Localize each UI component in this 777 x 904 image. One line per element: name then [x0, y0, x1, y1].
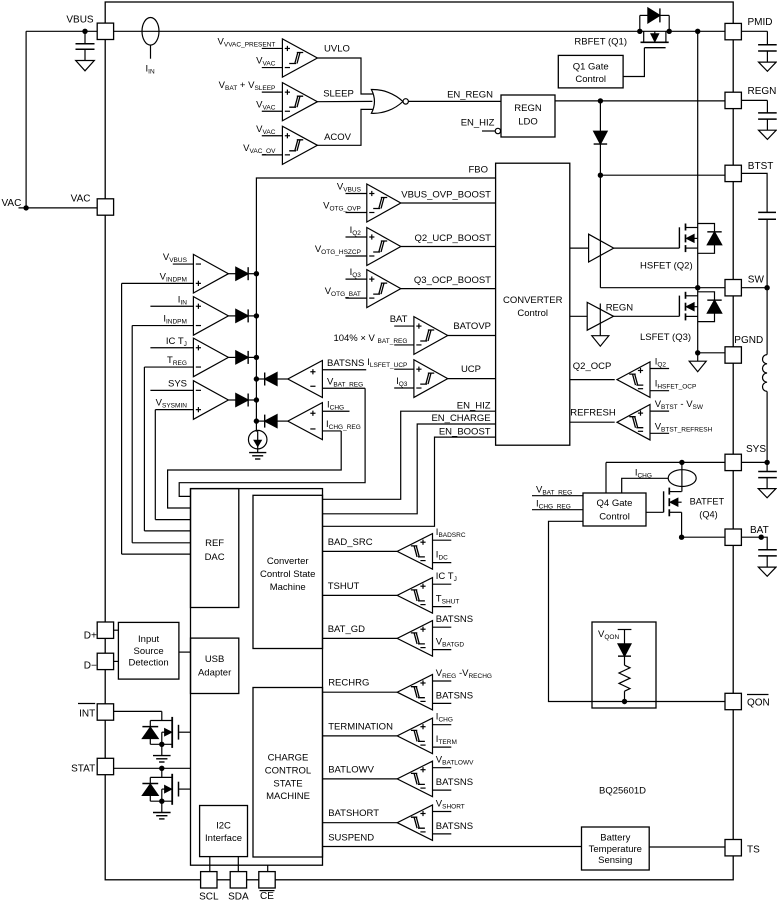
svg-text:EN_REGN: EN_REGN	[447, 90, 493, 101]
svg-text:Q3_OCP_BOOST: Q3_OCP_BOOST	[414, 275, 491, 286]
svg-text:LDO: LDO	[518, 117, 538, 128]
svg-text:Input: Input	[138, 634, 159, 645]
svg-text:BATFET: BATFET	[690, 497, 725, 507]
svg-text:Battery: Battery	[600, 833, 630, 844]
svg-text:I2C: I2C	[216, 821, 231, 832]
svg-text:BQ25601D: BQ25601D	[599, 786, 646, 797]
svg-text:BAT_GD: BAT_GD	[328, 624, 365, 635]
svg-text:EN_BOOST: EN_BOOST	[439, 426, 491, 437]
svg-text:Interface: Interface	[205, 833, 242, 844]
svg-text:Machine: Machine	[270, 582, 306, 593]
svg-text:BATSNS: BATSNS	[436, 690, 473, 701]
svg-text:BATSHORT: BATSHORT	[328, 808, 379, 819]
svg-text:Sensing: Sensing	[598, 855, 632, 866]
svg-text:UVLO: UVLO	[324, 44, 350, 55]
svg-text:BATLOWV: BATLOWV	[328, 764, 374, 775]
svg-text:RBFET (Q1): RBFET (Q1)	[574, 37, 627, 48]
svg-text:Source: Source	[134, 646, 164, 657]
svg-text:LSFET (Q3): LSFET (Q3)	[640, 332, 691, 343]
svg-text:Adapter: Adapter	[198, 668, 231, 679]
svg-text:REFRESH: REFRESH	[570, 408, 616, 419]
svg-text:Control: Control	[575, 74, 606, 85]
svg-text:D+: D+	[84, 631, 97, 642]
svg-text:BAD_SRC: BAD_SRC	[328, 537, 373, 548]
svg-text:CONTROL: CONTROL	[265, 765, 311, 776]
svg-text:BATSNS: BATSNS	[436, 614, 473, 625]
svg-text:BATSNS: BATSNS	[327, 358, 364, 369]
svg-text:BAT: BAT	[390, 314, 408, 325]
svg-text:REGN: REGN	[514, 103, 542, 114]
svg-text:SUSPEND: SUSPEND	[328, 833, 374, 844]
svg-text:INT: INT	[79, 709, 95, 720]
svg-text:(Q4): (Q4)	[699, 510, 717, 520]
svg-text:ACOV: ACOV	[324, 132, 352, 143]
svg-text:SYS: SYS	[168, 378, 187, 389]
svg-text:Converter: Converter	[267, 556, 309, 567]
svg-text:USB: USB	[205, 654, 225, 665]
svg-text:Control: Control	[517, 308, 548, 319]
svg-text:EN_HIZ: EN_HIZ	[457, 400, 491, 411]
svg-text:Detection: Detection	[129, 658, 169, 669]
svg-text:PMID: PMID	[748, 17, 773, 28]
svg-text:SLEEP: SLEEP	[323, 89, 354, 100]
svg-text:SW: SW	[748, 275, 765, 286]
svg-text:Q4 Gate: Q4 Gate	[597, 498, 633, 509]
svg-text:HSFET (Q2): HSFET (Q2)	[640, 261, 693, 272]
svg-text:STAT: STAT	[71, 764, 95, 775]
svg-text:PGND: PGND	[734, 335, 763, 346]
svg-text:Control State: Control State	[260, 569, 315, 580]
svg-text:EN_HIZ: EN_HIZ	[461, 118, 495, 129]
svg-text:BTST: BTST	[748, 161, 774, 172]
svg-text:VBUS: VBUS	[66, 14, 94, 25]
svg-text:QON: QON	[747, 698, 770, 709]
svg-text:TS: TS	[747, 845, 760, 856]
svg-text:TSHUT: TSHUT	[328, 581, 360, 592]
svg-text:VBUS_OVP_BOOST: VBUS_OVP_BOOST	[401, 190, 491, 201]
svg-text:SCL: SCL	[199, 892, 219, 903]
svg-text:EN_CHARGE: EN_CHARGE	[431, 413, 490, 424]
svg-text:SYS: SYS	[746, 444, 766, 455]
svg-text:Temperature: Temperature	[589, 844, 642, 855]
svg-text:VAC: VAC	[71, 194, 91, 205]
svg-text:RECHRG: RECHRG	[328, 678, 369, 689]
svg-text:CHARGE: CHARGE	[268, 753, 309, 764]
svg-text:REF: REF	[205, 538, 224, 549]
svg-text:Q1 Gate: Q1 Gate	[573, 62, 609, 73]
svg-text:Q2_OCP: Q2_OCP	[573, 361, 612, 372]
svg-text:SDA: SDA	[228, 892, 249, 903]
svg-text:FBO: FBO	[468, 164, 488, 175]
svg-text:BAT: BAT	[750, 525, 769, 536]
svg-text:BATOVP: BATOVP	[453, 321, 491, 332]
svg-text:CONVERTER: CONVERTER	[503, 295, 563, 306]
svg-text:MACHINE: MACHINE	[266, 791, 310, 802]
svg-text:Q2_UCP_BOOST: Q2_UCP_BOOST	[414, 233, 491, 244]
svg-text:D−: D−	[84, 661, 97, 672]
svg-text:BATSNS: BATSNS	[436, 777, 473, 788]
svg-text:Control: Control	[599, 512, 630, 523]
svg-text:TERMINATION: TERMINATION	[328, 721, 393, 732]
svg-text:STATE: STATE	[273, 778, 302, 789]
svg-text:BATSNS: BATSNS	[436, 821, 473, 832]
svg-text:VAC: VAC	[2, 198, 22, 209]
svg-text:REGN: REGN	[748, 86, 777, 97]
svg-text:CE: CE	[260, 891, 274, 902]
svg-text:DAC: DAC	[205, 552, 225, 563]
svg-text:REGN: REGN	[606, 303, 634, 314]
svg-text:UCP: UCP	[461, 364, 481, 375]
